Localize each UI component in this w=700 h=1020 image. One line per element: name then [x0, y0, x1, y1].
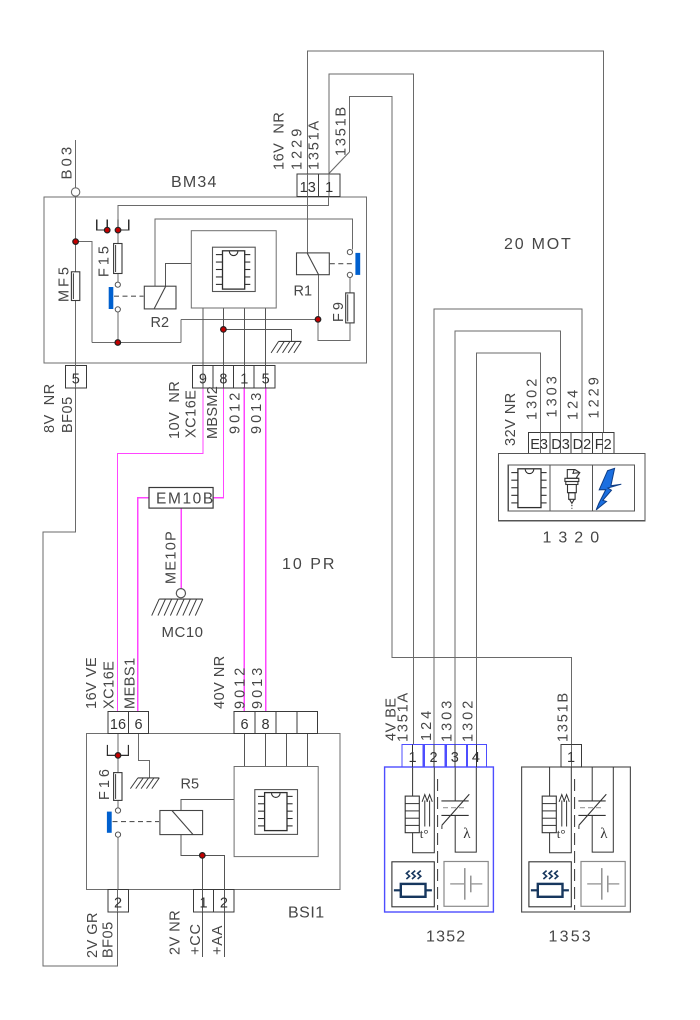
- svg-text:8: 8: [219, 371, 227, 387]
- svg-text:1353: 1353: [549, 929, 593, 946]
- svg-text:32V NR: 32V NR: [503, 392, 519, 446]
- svg-text:6: 6: [134, 717, 142, 733]
- svg-text:1: 1: [199, 895, 207, 911]
- svg-text:2V GR: 2V GR: [85, 912, 101, 958]
- svg-text:8V NR: 8V NR: [42, 383, 58, 433]
- svg-text:MF5: MF5: [57, 264, 73, 302]
- svg-text:t°: t°: [557, 826, 566, 841]
- svg-text:16: 16: [110, 717, 126, 733]
- svg-text:1229: 1229: [290, 126, 306, 170]
- svg-text:1: 1: [567, 750, 575, 766]
- svg-text:F16: F16: [97, 766, 113, 800]
- svg-text:9013: 9013: [250, 665, 266, 709]
- svg-text:1303: 1303: [439, 698, 455, 742]
- svg-text:1351A: 1351A: [396, 691, 412, 742]
- svg-text:1: 1: [325, 180, 333, 196]
- svg-text:1351B: 1351B: [556, 691, 572, 742]
- svg-text:BM34: BM34: [171, 174, 218, 191]
- svg-text:MBSM2: MBSM2: [205, 386, 221, 439]
- svg-text:B03: B03: [59, 144, 76, 180]
- svg-text:9013: 9013: [249, 390, 265, 434]
- svg-text:3: 3: [451, 750, 459, 766]
- svg-text:+CC: +CC: [188, 923, 204, 955]
- svg-text:BF05: BF05: [60, 396, 76, 433]
- svg-text:124: 124: [419, 708, 435, 741]
- svg-text:16V NR: 16V NR: [272, 112, 288, 170]
- svg-text:MEBS1: MEBS1: [123, 657, 139, 709]
- svg-text:5: 5: [262, 371, 270, 387]
- svg-text:1351B: 1351B: [334, 105, 350, 156]
- svg-text:13: 13: [300, 180, 316, 196]
- svg-text:λ: λ: [463, 826, 471, 842]
- svg-text:1229: 1229: [587, 374, 603, 418]
- svg-text:E3: E3: [530, 437, 548, 453]
- svg-text:1351A: 1351A: [307, 119, 323, 170]
- svg-text:+AA: +AA: [210, 925, 226, 955]
- svg-text:BSI1: BSI1: [288, 905, 325, 922]
- svg-text:D3: D3: [551, 437, 570, 453]
- svg-text:10V NR: 10V NR: [167, 381, 183, 439]
- svg-text:9012: 9012: [232, 665, 248, 709]
- svg-text:ME10P: ME10P: [164, 530, 180, 584]
- svg-text:1302: 1302: [460, 698, 476, 742]
- svg-text:1320: 1320: [543, 530, 607, 547]
- svg-text:2: 2: [114, 895, 122, 911]
- svg-text:1: 1: [409, 750, 417, 766]
- svg-text:124: 124: [566, 387, 582, 420]
- svg-text:2: 2: [220, 895, 228, 911]
- svg-text:F15: F15: [97, 243, 113, 277]
- svg-text:2: 2: [430, 750, 438, 766]
- svg-text:XC16E: XC16E: [102, 661, 118, 709]
- svg-text:MC10: MC10: [162, 624, 204, 641]
- svg-text:9: 9: [199, 371, 207, 387]
- svg-text:8: 8: [262, 717, 270, 733]
- svg-text:6: 6: [241, 717, 249, 733]
- svg-text:9012: 9012: [228, 390, 244, 434]
- svg-text:BF05: BF05: [101, 921, 117, 958]
- svg-text:t°: t°: [420, 826, 429, 841]
- svg-text:40V NR: 40V NR: [212, 655, 228, 709]
- svg-text:λ: λ: [600, 826, 608, 842]
- svg-text:F2: F2: [595, 437, 612, 453]
- svg-text:R5: R5: [181, 777, 200, 793]
- svg-text:4: 4: [472, 750, 480, 766]
- svg-text:D2: D2: [573, 437, 592, 453]
- svg-text:EM10B: EM10B: [156, 491, 215, 508]
- svg-text:R2: R2: [151, 315, 170, 331]
- svg-text:1302: 1302: [525, 376, 541, 420]
- svg-text:XC16E: XC16E: [184, 390, 200, 438]
- svg-text:5: 5: [72, 371, 80, 387]
- svg-text:1352: 1352: [426, 929, 466, 946]
- svg-text:16V VE: 16V VE: [84, 657, 100, 709]
- svg-text:20 MOT: 20 MOT: [504, 236, 573, 253]
- svg-text:1303: 1303: [545, 373, 561, 417]
- svg-text:1: 1: [240, 371, 248, 387]
- svg-text:10 PR: 10 PR: [282, 556, 336, 573]
- svg-text:R1: R1: [294, 284, 313, 300]
- svg-text:F9: F9: [331, 299, 347, 322]
- svg-text:2V NR: 2V NR: [168, 910, 184, 955]
